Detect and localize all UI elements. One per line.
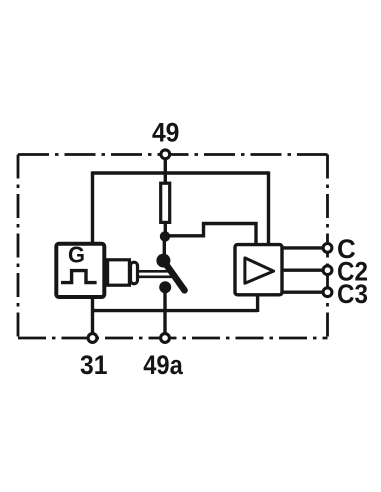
amplifier U1 box: [235, 245, 282, 295]
svg-text:G: G: [68, 242, 85, 268]
wire: right rail down to amplifier: [267, 171, 270, 245]
wire: amplifier to terminal C2: [283, 269, 324, 272]
terminal C: [323, 244, 332, 253]
wire: amplifier to terminal C: [283, 246, 324, 249]
junction dot: [160, 231, 170, 241]
pulse waveform symbol: [61, 271, 97, 283]
terminal C3: [323, 288, 332, 297]
terminal 31: [88, 334, 97, 343]
actuator push rod (double line): [138, 271, 172, 277]
svg-text:31: 31: [80, 350, 108, 380]
actuator plunger body: [108, 260, 130, 285]
svg-text:49a: 49a: [143, 350, 183, 380]
terminal C2: [323, 266, 332, 275]
wire: terminal 49 to top rail: [164, 158, 167, 175]
pulse generator G box: [56, 244, 104, 297]
switch lower contact dot: [159, 281, 171, 293]
relay housing boundary top (dash-dot): [18, 153, 328, 156]
wire: amplifier to terminal C3: [283, 291, 324, 294]
switch movable lever: [163, 261, 184, 291]
wire: step wire junction to amplifier input: [165, 224, 256, 246]
wire: resistor to junction: [164, 222, 167, 238]
actuator plunger cap: [131, 262, 138, 284]
wire: bottom rail (31 to amplifier): [93, 309, 258, 312]
relay housing boundary bottom (dash-dot): [18, 337, 328, 340]
wire: switch to terminal 49a: [163, 289, 166, 333]
wire: top rail: [93, 171, 269, 174]
terminal 49: [161, 150, 170, 159]
wire: junction to switch contact: [163, 236, 166, 256]
wire: top rail to resistor: [164, 173, 167, 184]
relay housing boundary left (dash-dot): [17, 155, 20, 339]
switch upper contact dot: [156, 254, 170, 268]
relay housing boundary right (dash-dot): [326, 155, 329, 339]
terminal 49a: [161, 334, 170, 343]
resistor R: [161, 183, 170, 222]
amplifier triangle symbol: [245, 258, 274, 283]
wire: left rail down to generator G: [91, 171, 94, 244]
svg-text:C3: C3: [337, 279, 368, 309]
svg-text:49: 49: [152, 118, 180, 148]
wire: bottom rail up to amplifier bottom: [256, 296, 259, 312]
wire: generator G to terminal 31: [91, 297, 94, 334]
